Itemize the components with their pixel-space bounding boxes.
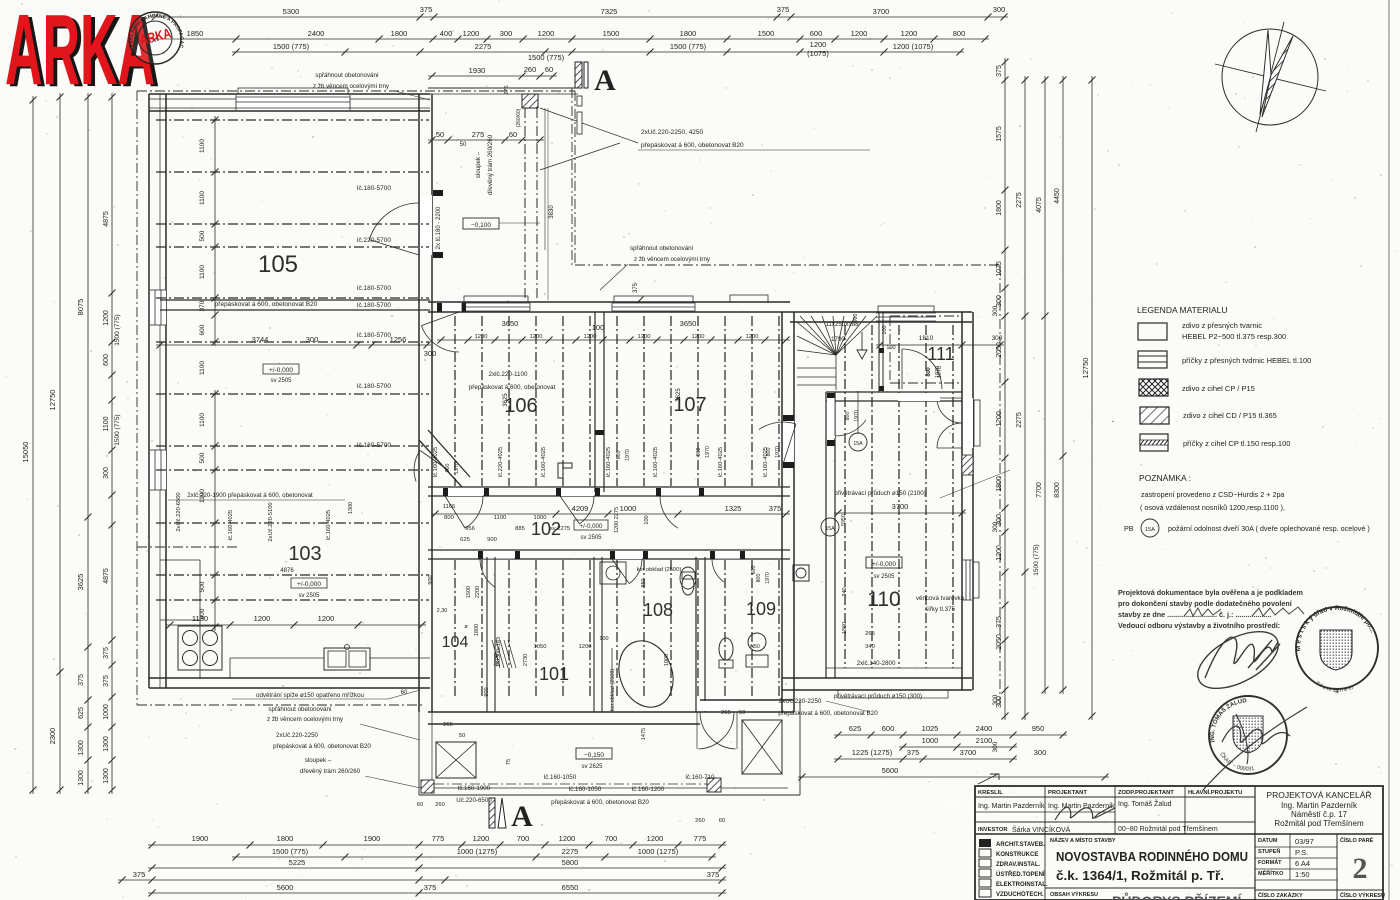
svg-text:6550: 6550 bbox=[562, 883, 579, 892]
svg-text:1000: 1000 bbox=[620, 504, 637, 513]
joist dash-dot lines room 105 bbox=[156, 119, 429, 121]
svg-text:75: 75 bbox=[506, 759, 512, 765]
svg-text:60: 60 bbox=[509, 130, 517, 139]
svg-text:700: 700 bbox=[517, 834, 530, 843]
svg-text:4875: 4875 bbox=[103, 211, 110, 227]
svg-text:HEBEL P2−500 tl.375 resp.300: HEBEL P2−500 tl.375 resp.300 bbox=[1182, 332, 1286, 341]
svg-text:PROJEKTANT: PROJEKTANT bbox=[1048, 790, 1087, 796]
svg-text:zdivo z cihel CP / P15: zdivo z cihel CP / P15 bbox=[1182, 384, 1255, 393]
svg-text:sv 2505: sv 2505 bbox=[580, 535, 602, 541]
stamp ing tomas zalud bbox=[1209, 696, 1287, 774]
level box -0,100 bbox=[463, 218, 499, 229]
svg-text:2275: 2275 bbox=[562, 847, 579, 856]
svg-text:1325: 1325 bbox=[725, 504, 742, 513]
svg-text:1200: 1200 bbox=[746, 334, 759, 340]
svg-text:příčky z přesných tvdrnic HEBE: příčky z přesných tvdrnic HEBEL tl.100 bbox=[1182, 356, 1311, 365]
svg-text:265: 265 bbox=[443, 722, 453, 728]
svg-text:1500: 1500 bbox=[758, 29, 775, 38]
svg-text:1970: 1970 bbox=[454, 462, 460, 474]
svg-text:340: 340 bbox=[842, 587, 848, 596]
svg-text:lč.180-5700: lč.180-5700 bbox=[357, 383, 391, 390]
svg-text:1800: 1800 bbox=[474, 624, 480, 636]
svg-text:60: 60 bbox=[417, 802, 423, 808]
svg-text:+/-0,000: +/-0,000 bbox=[269, 367, 293, 374]
svg-text:1200: 1200 bbox=[996, 411, 1003, 427]
svg-text:přepáskovat á 600, obetonovat: přepáskovat á 600, obetonovat B20 bbox=[778, 710, 878, 717]
svg-text:1970: 1970 bbox=[765, 572, 771, 584]
bottom wall middle block bbox=[428, 711, 700, 713]
dim chain top row2 bbox=[151, 38, 989, 40]
corridor chain 4209 bbox=[431, 513, 790, 515]
svg-text:spřáhnout obetonování: spřáhnout obetonování bbox=[630, 245, 694, 252]
svg-text:1200: 1200 bbox=[851, 29, 868, 38]
svg-text:50: 50 bbox=[436, 130, 444, 139]
svg-text:600: 600 bbox=[810, 29, 823, 38]
svg-text:300: 300 bbox=[306, 335, 319, 344]
svg-text:625: 625 bbox=[78, 707, 85, 719]
svg-text:400: 400 bbox=[440, 29, 453, 38]
svg-text:1900: 1900 bbox=[192, 834, 209, 843]
north arrow compass bbox=[1215, 22, 1326, 132]
svg-text:50: 50 bbox=[459, 733, 465, 739]
svg-text:2: 2 bbox=[1353, 852, 1368, 885]
svg-text:300: 300 bbox=[992, 335, 1003, 342]
svg-text:1500 (775): 1500 (775) bbox=[1033, 544, 1040, 575]
leader lines to column bbox=[540, 108, 638, 143]
svg-text:8075: 8075 bbox=[76, 299, 85, 316]
svg-text:1300: 1300 bbox=[78, 740, 85, 756]
svg-text:5800: 5800 bbox=[562, 858, 579, 867]
svg-text:1970: 1970 bbox=[625, 449, 631, 461]
svg-text:4450: 4450 bbox=[1054, 188, 1061, 204]
wall 108/109 bbox=[695, 557, 697, 712]
dim chain left outer 15050 bbox=[32, 96, 34, 794]
svg-text:300: 300 bbox=[992, 694, 999, 705]
svg-text:PROJEKTOVÁ KANCELÁŘ: PROJEKTOVÁ KANCELÁŘ bbox=[1266, 790, 1371, 800]
balcony double door right wall bbox=[963, 398, 973, 448]
svg-text:7325: 7325 bbox=[601, 7, 618, 16]
svg-text:1800: 1800 bbox=[996, 476, 1003, 492]
svg-text:2730: 2730 bbox=[523, 654, 529, 666]
joist dash-dot lines room 103 bbox=[156, 341, 429, 343]
svg-text:300: 300 bbox=[992, 305, 999, 316]
dim chain top row1 bbox=[151, 16, 1008, 18]
svg-text:50: 50 bbox=[460, 142, 467, 148]
svg-text:2400: 2400 bbox=[308, 29, 325, 38]
right overhang dash-dot bbox=[999, 265, 1001, 705]
svg-text:přivětrávací průduch ø150 (210: přivětrávací průduch ø150 (2100) bbox=[834, 490, 926, 497]
svg-text:1860: 1860 bbox=[842, 622, 848, 634]
svg-text:4209: 4209 bbox=[572, 504, 589, 513]
svg-text:800: 800 bbox=[445, 464, 451, 473]
boiler symbol 109 bbox=[793, 565, 809, 581]
svg-text:885: 885 bbox=[515, 526, 525, 532]
svg-text:lč.180-5700: lč.180-5700 bbox=[357, 332, 391, 339]
stairs radiating treads bbox=[797, 316, 877, 355]
svg-text:1930: 1930 bbox=[469, 66, 486, 75]
svg-text:sv 2505: sv 2505 bbox=[873, 574, 895, 580]
stair hatch small 104 bbox=[492, 640, 500, 668]
svg-text:lč.160-4025: lč.160-4025 bbox=[606, 447, 612, 477]
svg-text:1810: 1810 bbox=[919, 335, 934, 342]
svg-text:103: 103 bbox=[288, 543, 321, 565]
corridor bottom wall bbox=[428, 549, 790, 551]
svg-text:2xUč.220-2250: 2xUč.220-2250 bbox=[779, 698, 822, 705]
svg-text:100: 100 bbox=[644, 515, 650, 524]
svg-text:375: 375 bbox=[420, 5, 433, 14]
left wing bottom wall bbox=[149, 677, 430, 679]
kitchen counter room 103 bbox=[160, 559, 200, 561]
corridor top wall bbox=[428, 486, 790, 488]
svg-text:1100: 1100 bbox=[199, 361, 206, 375]
door D1 105 to porch bbox=[420, 195, 432, 255]
svg-text:č.k. 1364/1, Rožmitál p. T: č.k. 1364/1, Rožmitál p. Tř. bbox=[1056, 869, 1224, 883]
stairs arrow bbox=[861, 332, 863, 350]
svg-text:ARKA: ARKA bbox=[5, 0, 155, 106]
svg-text:375: 375 bbox=[424, 883, 437, 892]
crossed box right (chimney) bbox=[742, 720, 782, 774]
level box 105 bbox=[263, 364, 299, 374]
wall 106/107 bbox=[594, 312, 596, 492]
dim chain bottom row3 bbox=[148, 867, 726, 869]
svg-text:2300: 2300 bbox=[48, 728, 57, 745]
svg-text:375: 375 bbox=[103, 647, 110, 659]
svg-text:z žb věncem ocelovými trny: z žb věncem ocelovými trny bbox=[267, 716, 344, 723]
svg-text:100: 100 bbox=[886, 345, 895, 351]
wall under stairs/111 bbox=[826, 391, 962, 393]
svg-text:VZDUCHOTECH.: VZDUCHOTECH. bbox=[996, 892, 1044, 898]
svg-text:pro dokončení stavby podle dod: pro dokončení stavby podle dodatečného p… bbox=[1118, 599, 1293, 608]
svg-text:1800: 1800 bbox=[680, 29, 697, 38]
svg-text:1500 (775): 1500 (775) bbox=[273, 42, 310, 51]
svg-text:A: A bbox=[594, 64, 616, 97]
title block signature bbox=[1055, 806, 1115, 820]
svg-text:1575: 1575 bbox=[996, 126, 1003, 142]
section marker A bottom bbox=[489, 798, 495, 828]
column wood hatched bbox=[522, 94, 538, 108]
svg-text:2xlč.220-1900 přepáskovat á: 2xlč.220-1900 přepáskovat á 600, obetono… bbox=[187, 492, 313, 499]
chain 3744 room 105 bbox=[156, 344, 431, 346]
svg-text:ker.obklad (2500): ker.obklad (2500) bbox=[637, 567, 682, 573]
svg-text:800: 800 bbox=[696, 448, 702, 457]
window W9 right wall lower bbox=[963, 560, 972, 600]
svg-text:lč.160-1900: lč.160-1900 bbox=[458, 785, 491, 792]
kitchen stove 4 burners bbox=[178, 626, 222, 670]
ARKA logo bbox=[5, 0, 160, 108]
svg-text:300: 300 bbox=[1034, 748, 1047, 757]
svg-text:15A: 15A bbox=[825, 526, 835, 532]
svg-text:KONSTRUKCE: KONSTRUKCE bbox=[996, 852, 1038, 858]
svg-text:3650: 3650 bbox=[680, 319, 697, 328]
window W3 left wall lower bbox=[150, 450, 166, 490]
dim chain left 4875 col bbox=[111, 93, 113, 794]
svg-text:sv 2505: sv 2505 bbox=[270, 378, 292, 384]
porch right dash-dot boundary bbox=[571, 88, 573, 265]
legend swatch 2 pricky hebel bbox=[1138, 351, 1167, 368]
svg-text:stavby ze dne ................: stavby ze dne ......................... … bbox=[1118, 610, 1271, 619]
window W6 top wall right bbox=[730, 295, 768, 302]
svg-text:265: 265 bbox=[865, 631, 875, 637]
wall middle/right wing bbox=[781, 312, 783, 712]
svg-text:375: 375 bbox=[777, 5, 790, 14]
roof overhang dash-dot left bbox=[136, 91, 138, 705]
svg-text:NOVOSTAVBA RODINNÉHO DOMU: NOVOSTAVBA RODINNÉHO DOMU bbox=[1056, 849, 1248, 864]
svg-text:(1075): (1075) bbox=[807, 49, 829, 58]
svg-text:ČÍSLO PARÉ: ČÍSLO PARÉ bbox=[1340, 836, 1374, 844]
dim chain bottom row2 bbox=[232, 856, 716, 858]
svg-text:lč.220-4025: lč.220-4025 bbox=[498, 447, 504, 477]
svg-text:111: 111 bbox=[927, 344, 954, 364]
svg-text:Uč.220-6500: Uč.220-6500 bbox=[456, 797, 492, 804]
window W7 right wing top bbox=[876, 313, 936, 321]
svg-text:1000: 1000 bbox=[664, 654, 670, 666]
right wing bottom wall bbox=[782, 677, 972, 679]
svg-text:spřáhnout obetonování: spřáhnout obetonování bbox=[315, 72, 379, 79]
svg-text:1300: 1300 bbox=[78, 770, 85, 786]
svg-text:1200: 1200 bbox=[584, 334, 597, 340]
svg-text:1800: 1800 bbox=[996, 200, 1003, 216]
svg-text:N50: N50 bbox=[750, 644, 760, 650]
svg-text:sv 2625: sv 2625 bbox=[581, 764, 603, 770]
dim chain bottom row5 bbox=[148, 892, 726, 894]
svg-text:800: 800 bbox=[926, 367, 932, 376]
svg-text:375: 375 bbox=[769, 504, 782, 513]
svg-text:přepáskovat á 600, obetonovat: přepáskovat á 600, obetonovat B20 bbox=[273, 743, 371, 750]
svg-text:800: 800 bbox=[953, 29, 966, 38]
shower 108 bbox=[600, 562, 626, 584]
svg-text:+/-0,000: +/-0,000 bbox=[297, 581, 321, 588]
svg-text:A: A bbox=[511, 800, 533, 833]
wall 110 left bbox=[825, 392, 827, 678]
svg-text:3650: 3650 bbox=[502, 319, 519, 328]
svg-text:FORMÁT: FORMÁT bbox=[1258, 859, 1282, 866]
kitchen counter bottom 103 bbox=[230, 657, 324, 659]
svg-text:12750: 12750 bbox=[48, 390, 57, 411]
svg-text:sv 2275: sv 2275 bbox=[550, 526, 570, 532]
dim chain bottom row4 bbox=[118, 879, 726, 881]
svg-text:3625: 3625 bbox=[676, 388, 682, 402]
wall 101/108 bbox=[593, 557, 595, 712]
svg-text:Ing. Tomáš Žalud: Ing. Tomáš Žalud bbox=[1118, 799, 1172, 808]
svg-text:260: 260 bbox=[524, 65, 537, 74]
svg-text:60: 60 bbox=[401, 690, 408, 696]
svg-text:1800: 1800 bbox=[277, 834, 294, 843]
svg-text:375: 375 bbox=[633, 282, 639, 293]
kitchen sink bbox=[324, 648, 370, 670]
door under 107 bbox=[660, 488, 698, 496]
svg-text:Vedoucí odboru výstavby a živo: Vedoucí odboru výstavby a životního pros… bbox=[1118, 621, 1280, 630]
svg-text:2275: 2275 bbox=[1016, 192, 1023, 208]
svg-text:900: 900 bbox=[484, 687, 490, 696]
svg-text:15x300x183: 15x300x183 bbox=[496, 637, 502, 667]
joist chain room 103 bbox=[214, 390, 216, 631]
svg-text:2400: 2400 bbox=[976, 724, 993, 733]
dim chain right D col bbox=[1062, 76, 1064, 694]
stamp city arc text bbox=[1300, 610, 1374, 656]
right wing right outer wall bbox=[961, 312, 963, 690]
svg-text:ZODP.PROJEKTANT: ZODP.PROJEKTANT bbox=[1118, 790, 1174, 796]
svg-text:600: 600 bbox=[103, 354, 110, 366]
svg-text:375: 375 bbox=[78, 674, 85, 686]
door lower 109 bbox=[712, 551, 740, 559]
svg-text:1850: 1850 bbox=[187, 29, 204, 38]
svg-text:625: 625 bbox=[849, 724, 862, 733]
terrace outline bbox=[419, 794, 800, 796]
svg-text:1200: 1200 bbox=[538, 29, 555, 38]
svg-text:2050: 2050 bbox=[996, 634, 1003, 650]
svg-text:800: 800 bbox=[845, 412, 851, 421]
middle-left shared wall bbox=[418, 300, 420, 712]
svg-text:−0,100: −0,100 bbox=[471, 222, 491, 229]
joist chain 106 107 horizontal bbox=[437, 339, 790, 341]
svg-text:100: 100 bbox=[599, 636, 608, 642]
svg-text:1050: 1050 bbox=[534, 644, 547, 650]
svg-text:OBSAH VÝKRESU: OBSAH VÝKRESU bbox=[1050, 891, 1098, 898]
svg-text:50: 50 bbox=[739, 710, 745, 716]
svg-text:ZDRAV.INSTAL.: ZDRAV.INSTAL. bbox=[996, 862, 1041, 868]
svg-text:5950: 5950 bbox=[841, 514, 847, 526]
svg-text:1200: 1200 bbox=[530, 334, 543, 340]
joist chain room 105 bbox=[214, 116, 216, 346]
svg-text:LEGENDA MATERIALU: LEGENDA MATERIALU bbox=[1137, 305, 1228, 315]
stamp signature scribble bbox=[1203, 707, 1307, 790]
door mid corridor bbox=[560, 488, 594, 496]
legend swatch 3 cihly CP bbox=[1139, 379, 1168, 396]
svg-text:108: 108 bbox=[643, 600, 673, 620]
svg-text:přepáskovat á 600, obetonovat: přepáskovat á 600, obetonovat B20 bbox=[215, 301, 318, 308]
svg-text:sv 2505: sv 2505 bbox=[298, 593, 320, 599]
svg-text:lč.180-5700: lč.180-5700 bbox=[357, 285, 391, 292]
porch joist dash-dot vertical bbox=[524, 108, 526, 300]
svg-text:přepáskovat á 600, obetonovat: přepáskovat á 600, obetonovat bbox=[469, 384, 556, 391]
porch front edge bbox=[428, 87, 578, 89]
level box 102 bbox=[574, 520, 608, 530]
svg-text:3700: 3700 bbox=[892, 502, 909, 511]
svg-text:DATUM: DATUM bbox=[1258, 838, 1278, 844]
svg-text:3700: 3700 bbox=[873, 7, 890, 16]
svg-text:1500 (775): 1500 (775) bbox=[670, 42, 707, 51]
svg-text:Ing. Martin Pazderník: Ing. Martin Pazderník bbox=[978, 803, 1045, 810]
svg-text:15A: 15A bbox=[1145, 527, 1155, 533]
svg-text:sloupek –: sloupek – bbox=[305, 757, 332, 764]
stamp mestsky urad bbox=[1296, 607, 1378, 689]
svg-text:zdivo z cihel CD / P15 tl.365: zdivo z cihel CD / P15 tl.365 bbox=[1183, 411, 1277, 420]
svg-text:5300: 5300 bbox=[283, 7, 300, 16]
porch dim 1930 bbox=[428, 75, 557, 77]
svg-text:1100: 1100 bbox=[199, 265, 206, 279]
svg-text:300: 300 bbox=[103, 467, 110, 479]
svg-text:1225 (1275): 1225 (1275) bbox=[852, 748, 893, 757]
svg-text:265: 265 bbox=[721, 710, 731, 716]
svg-text:375: 375 bbox=[133, 870, 146, 879]
svg-text:lč.180-5700: lč.180-5700 bbox=[357, 302, 391, 309]
svg-text:lč.160-4025: lč.160-4025 bbox=[326, 510, 332, 540]
svg-text:300: 300 bbox=[992, 521, 999, 532]
svg-text:HLAVNÍ.PROJEKTU: HLAVNÍ.PROJEKTU bbox=[1188, 788, 1242, 796]
dim chain left 8075 col bbox=[87, 93, 89, 794]
level box 103 bbox=[291, 578, 327, 588]
svg-text:100: 100 bbox=[882, 325, 888, 334]
svg-text:lč.160-4025: lč.160-4025 bbox=[228, 510, 234, 540]
svg-text:1200: 1200 bbox=[475, 334, 488, 340]
svg-text:2xUč.220-2250, 4250: 2xUč.220-2250, 4250 bbox=[641, 129, 704, 136]
roof overhang dash-dot top bbox=[137, 90, 575, 92]
chain 3700 in 110 bbox=[834, 512, 966, 514]
right wing inner sill bottom bbox=[826, 667, 962, 669]
svg-text:2x lč.180 - 2200: 2x lč.180 - 2200 bbox=[436, 206, 442, 249]
svg-text:600: 600 bbox=[199, 324, 206, 335]
left wing right wall (shared with porch) bbox=[418, 94, 420, 300]
svg-text:100: 100 bbox=[592, 323, 605, 332]
svg-text:ČÍSLO ZAKÁZKY: ČÍSLO ZAKÁZKY bbox=[1258, 891, 1303, 899]
crossed box left (skylight) bbox=[436, 742, 476, 778]
title block header cols bbox=[975, 796, 1255, 798]
svg-text:Projektová dokumentace byla ov: Projektová dokumentace byla ověřena a je… bbox=[1118, 588, 1303, 597]
joist dash-dot vertical lower rooms bbox=[454, 560, 456, 698]
svg-text:1970: 1970 bbox=[705, 446, 711, 458]
dim chain top row3 bbox=[232, 51, 964, 53]
svg-text:950: 950 bbox=[1032, 724, 1045, 733]
svg-text:2200: 2200 bbox=[475, 586, 481, 598]
svg-text:1500: 1500 bbox=[466, 586, 472, 598]
svg-text:260: 260 bbox=[435, 802, 445, 808]
svg-text:1500 (775): 1500 (775) bbox=[272, 847, 309, 856]
svg-text:lč.180-5700: lč.180-5700 bbox=[357, 442, 391, 449]
svg-text:1970: 1970 bbox=[854, 410, 860, 422]
svg-text:1000 (1275): 1000 (1275) bbox=[638, 847, 679, 856]
svg-text:P.S.: P.S. bbox=[1295, 848, 1308, 857]
svg-text:00−80 Rožmitál pod Třemšínem: 00−80 Rožmitál pod Třemšínem bbox=[1118, 826, 1218, 833]
svg-text:775: 775 bbox=[694, 834, 707, 843]
chain 1130-1200 in 103 bbox=[166, 624, 426, 626]
wc small room toilet bbox=[682, 575, 694, 595]
svg-text:věncová tvarovka: věncová tvarovka bbox=[916, 595, 965, 602]
svg-text:z žb věncem ocelovými trny: z žb věncem ocelovými trny bbox=[634, 256, 711, 263]
svg-text:požární odolnost dveří 30A ( d: požární odolnost dveří 30A ( dveře oplec… bbox=[1168, 524, 1370, 533]
svg-text:+/-0,000: +/-0,000 bbox=[872, 561, 896, 568]
door lower 108 bbox=[612, 551, 642, 559]
svg-text:3700: 3700 bbox=[960, 748, 977, 757]
dim chain right C col bbox=[1044, 76, 1046, 694]
svg-text:lč.160-1200: lč.160-1200 bbox=[632, 786, 665, 793]
svg-text:260: 260 bbox=[695, 818, 705, 824]
svg-text:PB: PB bbox=[1124, 524, 1134, 533]
door under 106 bbox=[445, 488, 483, 496]
svg-text:12750: 12750 bbox=[1081, 358, 1090, 379]
svg-text:3630: 3630 bbox=[549, 205, 555, 219]
title block outer bbox=[975, 786, 1383, 900]
svg-text:5600: 5600 bbox=[882, 766, 899, 775]
svg-text:STUPEŇ: STUPEŇ bbox=[1258, 847, 1280, 855]
svg-text:dřevěný trám 260/260: dřevěný trám 260/260 bbox=[300, 768, 361, 775]
svg-text:lč.160-1050: lč.160-1050 bbox=[569, 786, 602, 793]
svg-text:INVESTOR: INVESTOR bbox=[978, 827, 1008, 833]
svg-text:956: 956 bbox=[465, 526, 475, 532]
svg-text:−0,150: −0,150 bbox=[584, 752, 604, 759]
svg-text:šířky tl.375: šířky tl.375 bbox=[925, 606, 955, 613]
svg-text:ARCHIT.STAVEB.: ARCHIT.STAVEB. bbox=[996, 842, 1045, 848]
svg-text:2xUč.220-2250: 2xUč.220-2250 bbox=[276, 732, 319, 739]
svg-text:500: 500 bbox=[199, 230, 206, 241]
hatched pier bottom left bbox=[421, 780, 434, 793]
svg-text:110: 110 bbox=[867, 588, 900, 611]
svg-text:POZNÁMKA :: POZNÁMKA : bbox=[1139, 473, 1191, 483]
left wing divider wall 105/103 bbox=[160, 299, 430, 301]
window W4 top wall 106 bbox=[462, 303, 530, 311]
svg-text:zdivo z přesných tvarnic: zdivo z přesných tvarnic bbox=[1182, 321, 1262, 330]
svg-text:4875: 4875 bbox=[103, 568, 110, 584]
svg-text:(260/60): (260/60) bbox=[516, 108, 522, 127]
